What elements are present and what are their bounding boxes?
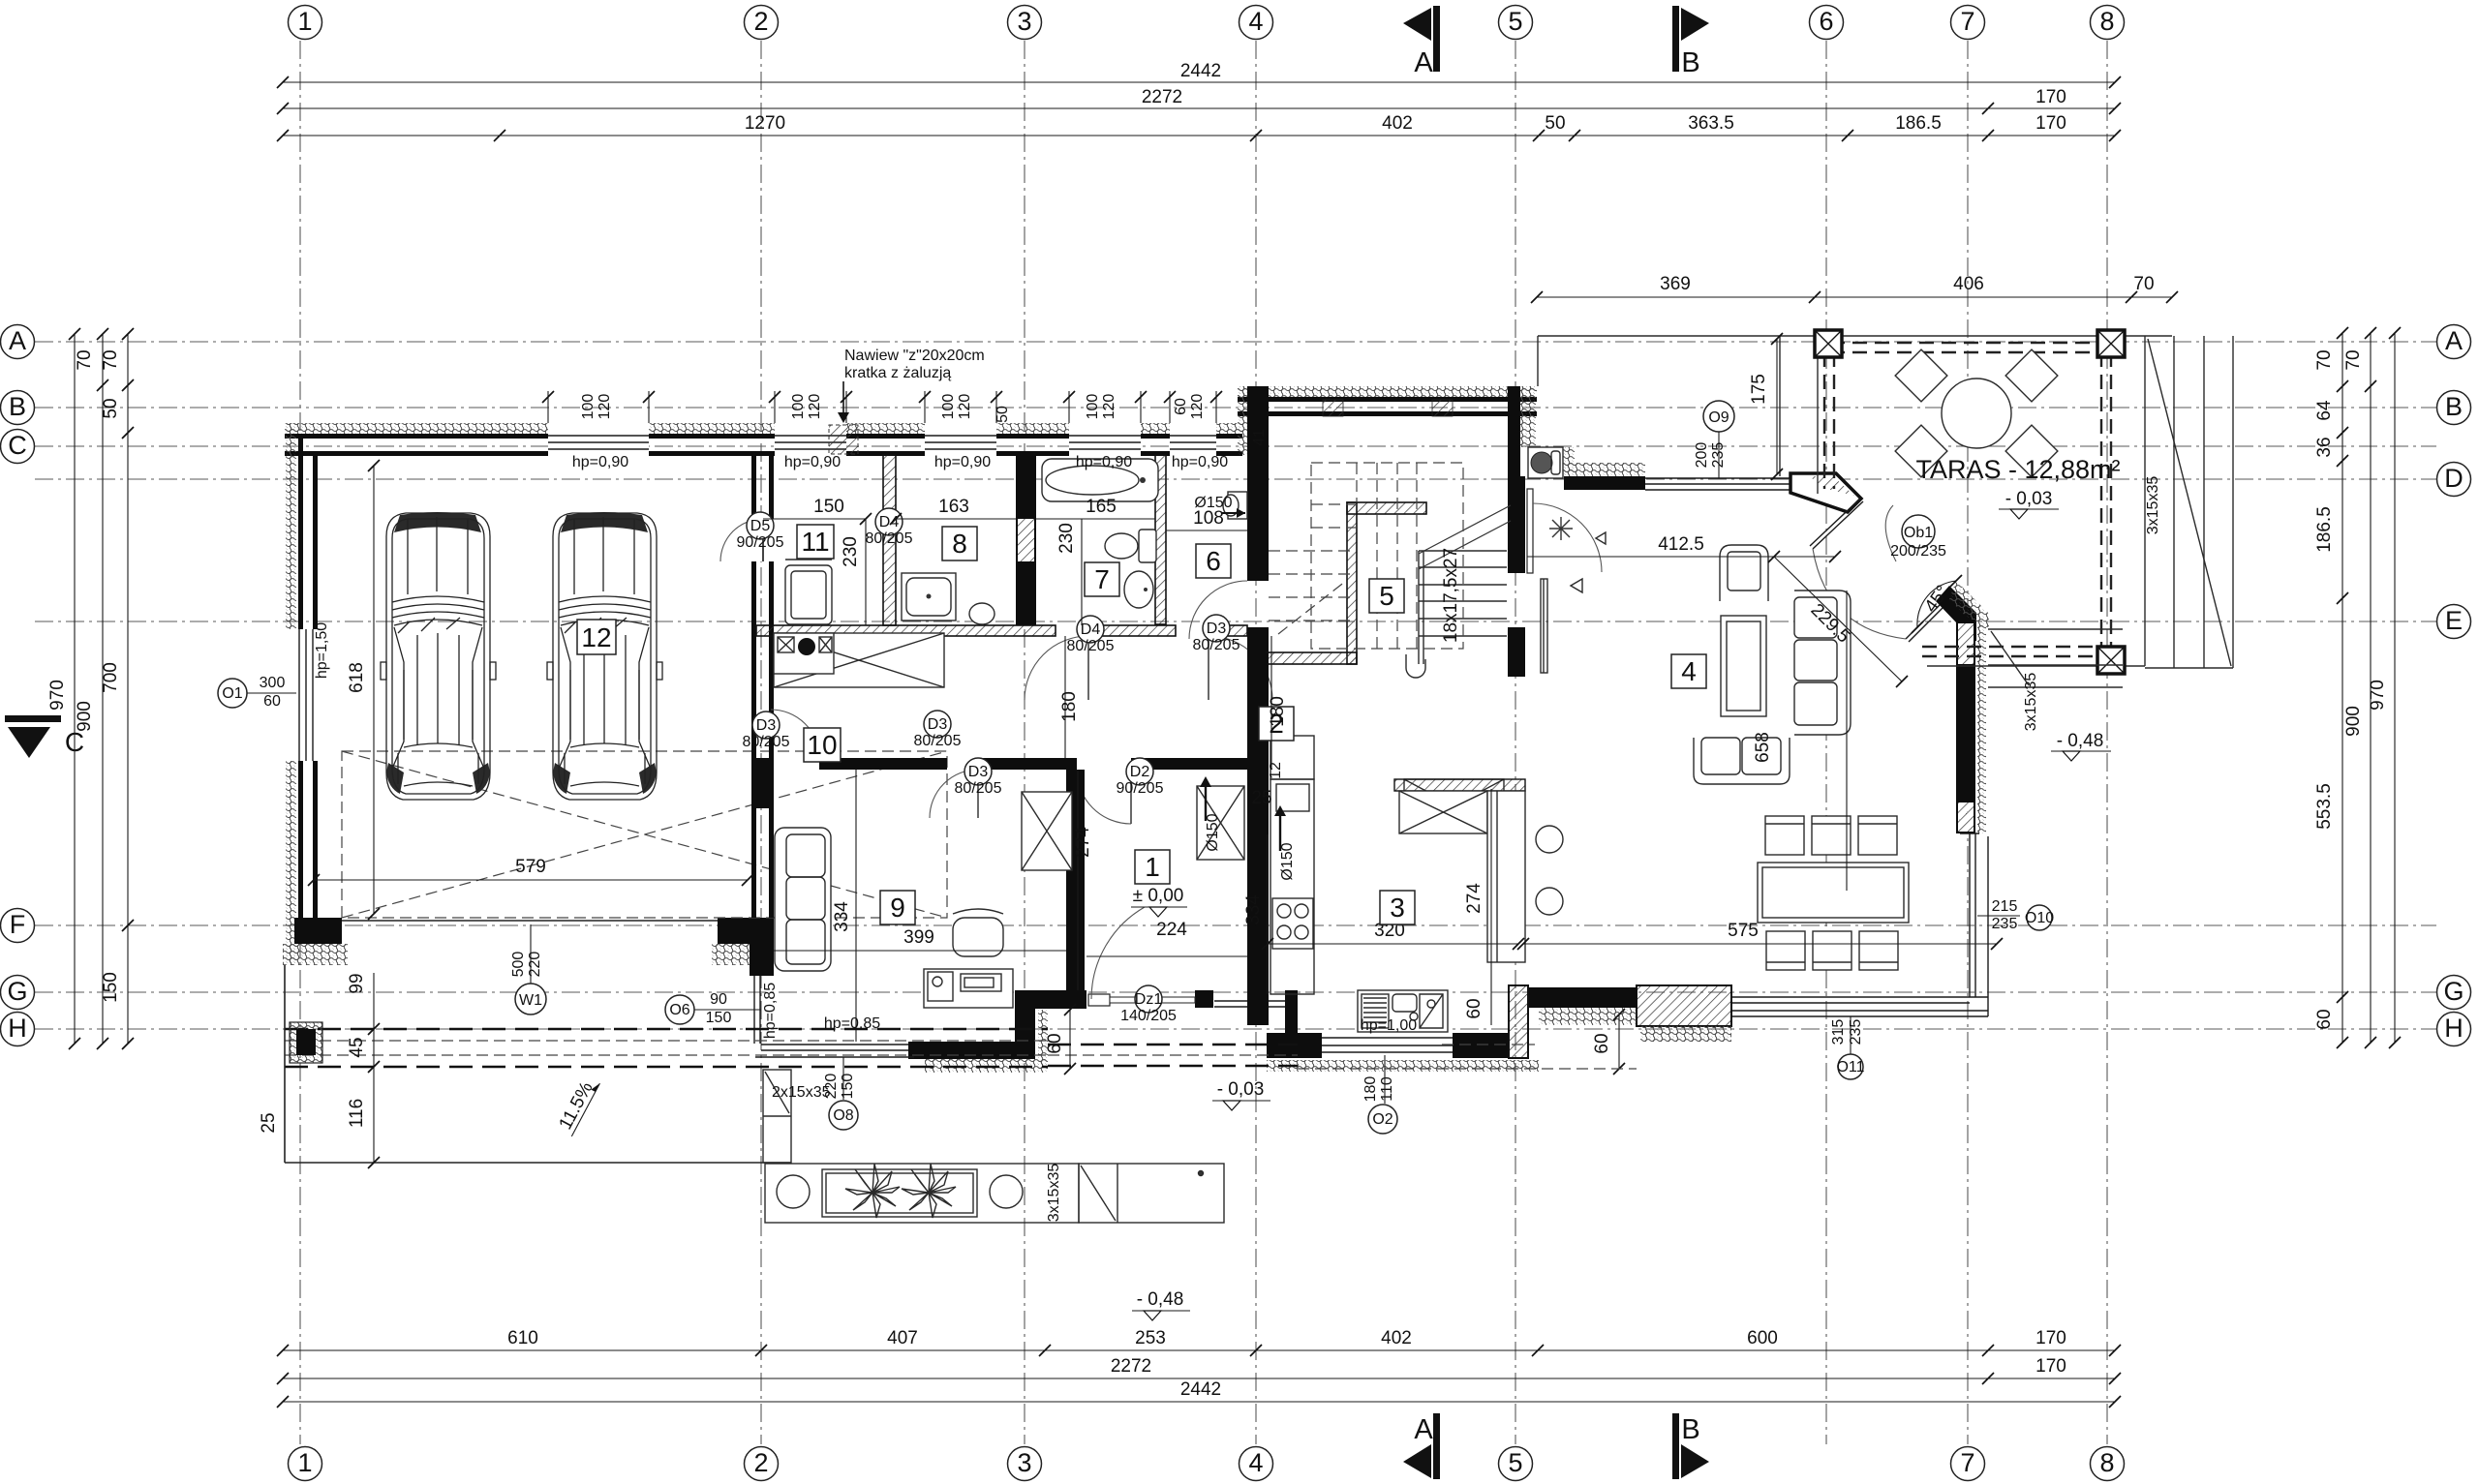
- planter flower 2: [902, 1164, 956, 1218]
- svg-text:170: 170: [2035, 1328, 2066, 1348]
- wall column col3 between 8 and 7: [1016, 451, 1036, 625]
- stair block north wall inner line: [1238, 411, 1537, 416]
- stair U-wall bottom bar: [1266, 652, 1357, 664]
- svg-text:B: B: [9, 392, 26, 421]
- level +-0,00: [1131, 886, 1187, 917]
- washing machine room 11: [785, 560, 832, 624]
- room box 1: [1135, 850, 1170, 884]
- svg-text:100: 100: [940, 394, 957, 420]
- svg-text:140/205: 140/205: [1120, 1008, 1177, 1024]
- dining north wall hatch: [1564, 463, 1645, 476]
- kitchen west corner: [1285, 990, 1298, 1037]
- svg-text:8: 8: [2099, 7, 2114, 36]
- dim 180 hall right: [1268, 636, 1288, 770]
- svg-text:O6: O6: [669, 1002, 689, 1018]
- svg-text:500: 500: [510, 952, 527, 978]
- window O2 callout: [1362, 1055, 1397, 1134]
- svg-text:2442: 2442: [1180, 61, 1221, 81]
- pergola post top-right: [2097, 330, 2125, 357]
- svg-text:402: 402: [1382, 113, 1413, 134]
- svg-text:70: 70: [2133, 274, 2154, 294]
- svg-text:1: 1: [1145, 852, 1160, 882]
- vent arrow kitchen up: [1274, 805, 1296, 881]
- svg-text:220: 220: [823, 1074, 840, 1100]
- svg-text:175: 175: [1749, 374, 1769, 405]
- terrace chair SE: [2005, 425, 2058, 477]
- level -0,48 bottom: [1132, 1289, 1190, 1320]
- svg-text:D4: D4: [1081, 621, 1101, 638]
- right dimension chain col 3 (970): [2368, 327, 2401, 1048]
- section marker B bottom: [1672, 1413, 1709, 1479]
- svg-text:hp=0,90: hp=0,90: [784, 454, 841, 470]
- svg-text:D2: D2: [1130, 764, 1150, 780]
- svg-text:70: 70: [101, 349, 121, 370]
- wall room10/9 segment 2: [978, 758, 1077, 770]
- svg-text:8: 8: [952, 529, 967, 559]
- driveway thin dashed lines: [285, 1040, 1048, 1042]
- office chair room 9: [953, 909, 1003, 956]
- svg-text:12: 12: [1268, 762, 1284, 779]
- porch dashed floor line 1: [1048, 1044, 1298, 1046]
- svg-text:60: 60: [1173, 398, 1189, 415]
- garage door dashed swing box: [342, 751, 947, 918]
- grid row lines A-H: [35, 342, 2436, 1029]
- door D3 room9 arc: [930, 770, 978, 818]
- svg-text:D: D: [2444, 464, 2464, 493]
- vent arrow porch: [1200, 776, 1221, 852]
- desk room 9: [924, 969, 1013, 1008]
- svg-text:18x17,5x27: 18x17,5x27: [1441, 548, 1461, 643]
- south living wall pier hatched: [1637, 985, 1731, 1026]
- svg-text:25: 25: [259, 1112, 279, 1133]
- porch north wall: [1035, 990, 1086, 1009]
- driveway dashed line 2: [285, 1066, 1048, 1069]
- svg-text:80/205: 80/205: [866, 530, 913, 547]
- svg-text:70: 70: [2314, 349, 2335, 370]
- radiator inner line: [1543, 579, 1545, 673]
- room box 7: [1085, 562, 1119, 596]
- svg-text:600: 600: [1747, 1328, 1778, 1348]
- svg-text:2272: 2272: [1111, 1356, 1151, 1377]
- svg-text:6: 6: [1819, 7, 1833, 36]
- svg-text:- 0,48: - 0,48: [1137, 1289, 1184, 1310]
- dim 274 corridor: [1073, 770, 1093, 990]
- svg-text:369: 369: [1660, 274, 1691, 294]
- svg-text:274: 274: [1073, 827, 1093, 858]
- room 9 south hatch: [925, 1059, 1047, 1073]
- svg-text:80/205: 80/205: [1193, 637, 1240, 653]
- svg-text:700: 700: [101, 662, 121, 693]
- svg-text:120: 120: [597, 394, 613, 420]
- svg-text:E: E: [2445, 606, 2463, 635]
- bar stool 1: [1536, 826, 1563, 853]
- car 1 in garage: [381, 512, 496, 800]
- entrance open arrows: [1596, 532, 1606, 544]
- dim 60 porch: [1045, 1004, 1076, 1075]
- apron left edge: [284, 965, 286, 1163]
- diagonal corner hatch outside: [1949, 581, 1989, 627]
- svg-text:50: 50: [1545, 113, 1565, 134]
- svg-text:60: 60: [1045, 1033, 1065, 1053]
- svg-text:200/235: 200/235: [1890, 543, 1946, 560]
- garage southeast corner post: [750, 944, 774, 976]
- window gap 5 north wall: [1170, 422, 1216, 457]
- dining chairs top row: [1765, 816, 1897, 855]
- svg-text:41: 41: [1251, 429, 1268, 446]
- corridor west wall: [1066, 770, 1085, 990]
- door Ob1 callout: [1890, 515, 1946, 560]
- door Ob1 leaf open: [1810, 499, 1863, 549]
- wall room10/9 segment 3: [1131, 758, 1269, 770]
- diagonal fixed glazing: [1906, 594, 1953, 642]
- dining chairs bottom row: [1766, 931, 1898, 970]
- rotated window dims 100/120 gap1: [580, 394, 613, 420]
- stair hall corner block right: [1508, 627, 1525, 677]
- top dimension chain row 3 (1270/402/50/363.5/186.5/170): [277, 113, 2121, 141]
- wardrobe corridor: [1197, 786, 1244, 860]
- svg-text:64: 64: [2314, 400, 2335, 421]
- sofa living east: [1794, 591, 1851, 735]
- svg-text:TARAS - 12,88m²: TARAS - 12,88m²: [1915, 455, 2120, 484]
- gate post footing: [290, 1022, 322, 1063]
- room box 5: [1369, 579, 1404, 613]
- west exterior wall inner line: [313, 451, 318, 944]
- svg-text:Ob1: Ob1: [1904, 525, 1933, 541]
- right dimension chain col 1 (70/64/36/186.5/553.5/60): [2314, 327, 2348, 1048]
- chimney block 1 in stair north wall: [1323, 400, 1343, 416]
- stair break diagonal: [1419, 505, 1511, 554]
- svg-text:412.5: 412.5: [1658, 534, 1704, 555]
- window west room 9: [754, 976, 760, 1044]
- svg-text:970: 970: [47, 680, 68, 711]
- dim 229.5 diagonal: [1774, 557, 1908, 687]
- svg-text:170: 170: [2035, 113, 2066, 134]
- svg-text:hp=1,00: hp=1,00: [1361, 1017, 1417, 1034]
- window gap 2 north wall: [775, 422, 846, 457]
- svg-text:90: 90: [710, 991, 727, 1008]
- south living wall: [1528, 987, 1637, 1008]
- pergola outer edge: [1818, 336, 2145, 666]
- svg-text:60: 60: [1592, 1033, 1612, 1053]
- window gap 4 north wall: [1069, 422, 1141, 457]
- east wall hatched block top: [1958, 623, 1974, 664]
- pergola post bottom-right: [2097, 647, 2125, 674]
- window gap 1 north wall: [548, 422, 649, 457]
- toilet room 6: [1223, 492, 1247, 519]
- svg-text:O10: O10: [2025, 910, 2054, 926]
- left dimension chain col 2 (70/900): [75, 328, 108, 1049]
- Nawiew annotation: [838, 348, 985, 423]
- svg-text:186.5: 186.5: [1895, 113, 1942, 134]
- svg-text:80/205: 80/205: [1067, 638, 1115, 654]
- porch dashed floor line 2: [1048, 1065, 1298, 1068]
- grid column lines 1-8: [300, 41, 2107, 1444]
- dim 399 room 9: [774, 927, 1066, 951]
- wardrobe hall 2: [1404, 779, 1504, 833]
- svg-text:25: 25: [1251, 788, 1271, 808]
- stair block east wall hatch: [1520, 386, 1536, 447]
- slope label 11.5%: [554, 1074, 600, 1136]
- stair U-wall top bar: [1347, 502, 1426, 514]
- dim 163 room8: [890, 497, 1016, 525]
- terrace steps south: [1988, 629, 2123, 687]
- porch level -0,03: [1212, 1079, 1270, 1110]
- shower room 8: [902, 573, 956, 621]
- svg-text:36: 36: [2314, 437, 2335, 457]
- porch left jamb hatch: [1038, 1010, 1048, 1069]
- svg-text:224: 224: [1156, 920, 1187, 940]
- hatched part of col3 wall: [1018, 519, 1034, 561]
- north exterior wall outer line: [285, 434, 1242, 439]
- east wall hatch band: [1977, 624, 1986, 833]
- dim 224 corridor: [1086, 920, 1247, 956]
- svg-text:70: 70: [75, 349, 95, 370]
- svg-text:hp=0,85: hp=0,85: [824, 1015, 880, 1032]
- svg-text:B: B: [2445, 392, 2463, 421]
- svg-text:363.5: 363.5: [1688, 113, 1734, 134]
- door label D3 room9: [955, 758, 1002, 797]
- dim 165 bath7: [1036, 497, 1155, 519]
- svg-text:186.5: 186.5: [2314, 506, 2335, 553]
- entrance door Dz1 swing arc: [1091, 907, 1145, 999]
- pergola post top-left: [1815, 330, 1842, 357]
- top dimension chain row 2 (2272 / 170): [277, 87, 2121, 114]
- kitchen tall cabinet: [1270, 736, 1314, 779]
- washbasin room 8: [969, 603, 995, 624]
- svg-text:235: 235: [1710, 442, 1727, 469]
- door D4 bath leaf: [1087, 636, 1089, 700]
- svg-text:D3: D3: [928, 716, 948, 733]
- svg-text:D3: D3: [1207, 621, 1227, 637]
- svg-text:553.5: 553.5: [2314, 783, 2335, 830]
- entrance door swing arc: [1533, 503, 1602, 572]
- kitchen south wall west segment: [1267, 1033, 1322, 1058]
- svg-text:O8: O8: [833, 1107, 853, 1124]
- kitchen south window O2: [1322, 1038, 1453, 1052]
- kitchen corner hatched block: [1509, 985, 1528, 1058]
- svg-text:170: 170: [2035, 87, 2066, 107]
- couch room 9: [775, 828, 831, 971]
- svg-text:5: 5: [1508, 1448, 1522, 1477]
- window O6 callout: [665, 991, 761, 1026]
- terrace top dimension (369/406/70): [1531, 274, 2178, 303]
- svg-text:C: C: [8, 431, 27, 460]
- svg-text:50: 50: [101, 398, 121, 418]
- steps right of planter: [1079, 1164, 1224, 1223]
- svg-text:1: 1: [297, 1448, 312, 1477]
- garage south wall east stub: [718, 918, 774, 944]
- south living wall pier hatch band: [1640, 1026, 1731, 1042]
- svg-text:90/205: 90/205: [737, 534, 784, 551]
- kitchen south wall east segment: [1453, 1033, 1509, 1058]
- terrace chair NW: [1895, 349, 1947, 402]
- garage east wall line 2: [769, 455, 774, 918]
- garage door W1 callout: [510, 924, 546, 1015]
- steps 2x15x35: [763, 1070, 831, 1163]
- window O9 callout: [1694, 401, 1734, 478]
- northeast corner piece: [1790, 473, 1861, 512]
- door label D2 corridor: [1117, 758, 1164, 797]
- svg-text:100: 100: [1085, 394, 1101, 420]
- svg-text:O9: O9: [1708, 409, 1729, 426]
- diagonal corner chevron to east wall: [1936, 586, 1976, 641]
- grid circles left: [1, 325, 35, 1046]
- svg-text:60: 60: [1464, 998, 1484, 1018]
- svg-text:hp=0,90: hp=0,90: [572, 454, 628, 470]
- svg-text:180: 180: [1362, 1076, 1379, 1103]
- rotated window dims 60/120 gap5: [1173, 394, 1206, 420]
- svg-text:80/205: 80/205: [914, 733, 962, 749]
- chimney block 2 in stair north wall: [1432, 400, 1453, 416]
- bar stool 2: [1536, 888, 1563, 915]
- svg-text:110: 110: [1379, 1076, 1395, 1102]
- washer utility niche: [1528, 447, 1563, 478]
- svg-text:2: 2: [753, 1448, 768, 1477]
- svg-text:G: G: [2443, 977, 2464, 1006]
- window O10 callout: [1977, 898, 2054, 932]
- wall room10/9 corner stub: [752, 758, 771, 808]
- dim 320: [1262, 921, 1524, 950]
- room box 8: [942, 527, 977, 560]
- svg-text:10: 10: [807, 730, 837, 760]
- door D3 room9 leaf: [977, 770, 979, 818]
- rotated window dims 100/120 gap3: [940, 394, 973, 420]
- col4 wall upper-mid: [1247, 627, 1269, 1025]
- svg-text:100: 100: [580, 394, 597, 420]
- left dimension chain col 3 (70/50/700/150): [101, 328, 134, 1049]
- grid circles bottom: [289, 1447, 2125, 1481]
- terrace porch outline: [1538, 336, 2172, 476]
- kitchen cooktop: [1272, 898, 1313, 949]
- svg-text:O11: O11: [1836, 1059, 1864, 1075]
- dim 274 island: [1464, 789, 1491, 1025]
- window gap 3 north wall: [925, 422, 996, 457]
- kitchenette room 10 counter: [774, 633, 944, 687]
- bottom dimension chain row 1 (610/407/253/402/600/170): [277, 1328, 2121, 1356]
- svg-text:9: 9: [890, 893, 905, 923]
- west exterior wall outer line: [298, 434, 303, 944]
- door D5 leaf and arc: [720, 519, 763, 561]
- svg-text:3: 3: [1017, 7, 1031, 36]
- car 2 in garage: [547, 512, 662, 800]
- stair bottom handrail curl: [1406, 654, 1425, 678]
- vent box in north wall: [829, 425, 858, 454]
- svg-text:150: 150: [706, 1010, 732, 1026]
- pergola dashed beams: [1824, 343, 2111, 656]
- svg-text:7: 7: [1094, 564, 1110, 594]
- svg-text:hp=0,90: hp=0,90: [1076, 454, 1132, 470]
- bottom dimension chain row 3 (2442): [277, 1379, 2121, 1408]
- section marker C left: [5, 715, 84, 758]
- room box 11: [797, 525, 834, 559]
- section marker A top: [1403, 6, 1440, 78]
- svg-text:hp=0,90: hp=0,90: [1172, 454, 1228, 470]
- room box 4: [1671, 654, 1706, 688]
- svg-text:F: F: [10, 910, 26, 939]
- door D3 wc6 leaf: [1208, 636, 1209, 700]
- wall between bath 7 and wc 6: [1155, 455, 1166, 624]
- window O1 west wall: [285, 629, 320, 761]
- stair U-wall left bar: [1347, 502, 1357, 664]
- terrace chair NE: [2005, 349, 2058, 402]
- dim 108 wc6: [1166, 508, 1247, 530]
- svg-text:80/205: 80/205: [743, 734, 790, 750]
- svg-text:5: 5: [1508, 7, 1522, 36]
- door D4 bath arc: [1025, 636, 1088, 700]
- svg-text:575: 575: [1728, 921, 1759, 941]
- northeast corner piece hatch: [1809, 476, 1854, 496]
- svg-text:H: H: [2444, 1014, 2464, 1043]
- horizontal wall under bath block segment 2: [1088, 625, 1176, 636]
- svg-text:60: 60: [2314, 1009, 2335, 1029]
- svg-text:70: 70: [2343, 349, 2364, 370]
- grid circles top: [289, 6, 2125, 40]
- svg-text:B: B: [1681, 1414, 1699, 1445]
- garage east wall door D5 gap: [750, 519, 776, 561]
- section marker A bottom: [1403, 1413, 1440, 1479]
- door D3 wc6 arc: [1209, 636, 1272, 700]
- grid circles right: [2437, 325, 2471, 1046]
- kitchen island hatched counter top: [1394, 779, 1525, 791]
- stair block north wall hatch: [1238, 386, 1537, 397]
- door D3 room10 arc: [771, 710, 819, 758]
- svg-text:116: 116: [347, 1099, 367, 1128]
- 45 degree label: [1912, 575, 1962, 633]
- svg-text:315: 315: [1830, 1019, 1847, 1045]
- door label D4 bath7: [1067, 616, 1115, 654]
- vent arrow wc6: [1194, 495, 1245, 518]
- garage south stub hatch: [712, 944, 750, 965]
- svg-text:180: 180: [1268, 696, 1288, 727]
- section marker B top: [1672, 6, 1709, 78]
- svg-text:4: 4: [1248, 7, 1263, 36]
- room box 2: [1259, 707, 1294, 741]
- svg-text:120: 120: [1189, 394, 1206, 420]
- kitchen island cabinet X: [1399, 791, 1487, 833]
- wall between rooms 11 and 8: [883, 455, 896, 625]
- svg-text:- 0,03: - 0,03: [2005, 489, 2053, 509]
- west exterior wall hatch band: [286, 423, 296, 965]
- door D2 corridor arc: [1077, 770, 1131, 824]
- svg-text:8: 8: [2099, 1448, 2114, 1477]
- dim 334 kitchen: [1243, 834, 1268, 994]
- window O11 callout: [1830, 1016, 1865, 1079]
- svg-text:180: 180: [1059, 691, 1080, 722]
- top dimension chain row 1 (2442): [277, 61, 2121, 88]
- svg-text:3x15x35: 3x15x35: [1046, 1164, 1062, 1223]
- svg-text:Ø150: Ø150: [1205, 813, 1221, 851]
- coffee table living: [1721, 616, 1766, 716]
- south living wall hatch: [1539, 1008, 1637, 1025]
- svg-text:120: 120: [1101, 394, 1117, 420]
- toilet room 7: [1105, 530, 1156, 562]
- southeast corner sill: [1970, 996, 1988, 998]
- svg-text:- 0,48: - 0,48: [2057, 731, 2104, 751]
- svg-text:99: 99: [347, 973, 367, 993]
- dim 60 south: [1592, 1009, 1625, 1075]
- window O11 south: [1731, 997, 1988, 1016]
- entrance door Dz1 threshold: [1088, 994, 1195, 1006]
- svg-text:200: 200: [1694, 442, 1710, 469]
- entrance door star symbol: [1549, 517, 1573, 540]
- svg-text:900: 900: [75, 701, 95, 732]
- svg-text:6: 6: [1206, 546, 1221, 576]
- svg-text:407: 407: [887, 1328, 918, 1348]
- svg-text:80/205: 80/205: [955, 780, 1002, 797]
- svg-text:Dz1: Dz1: [1135, 991, 1163, 1008]
- svg-text:60: 60: [263, 693, 281, 710]
- svg-text:hp=0,85: hp=0,85: [762, 983, 779, 1039]
